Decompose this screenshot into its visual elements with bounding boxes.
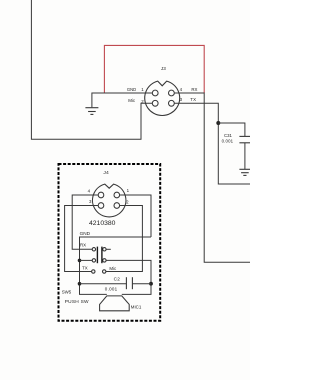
microphone MIC1 bbox=[100, 296, 130, 311]
wire J4 pin1 to GND bus bbox=[120, 195, 151, 237]
svg-text:TX: TX bbox=[190, 97, 196, 102]
switch SW5 actuator bars bbox=[97, 247, 102, 264]
junction GND/C2 bbox=[78, 282, 82, 286]
svg-text:SW5: SW5 bbox=[62, 289, 72, 294]
svg-text:TX: TX bbox=[82, 266, 88, 271]
svg-text:C2: C2 bbox=[114, 277, 121, 282]
connector J3 bbox=[145, 81, 180, 115]
svg-text:PUSH SW: PUSH SW bbox=[65, 299, 89, 305]
ground symbol at C31 bbox=[239, 169, 250, 175]
switch SW5 row3 TX/Mic contacts bbox=[92, 270, 106, 273]
svg-text:RX: RX bbox=[191, 87, 197, 92]
capacitor C31 bbox=[218, 123, 250, 169]
junction GND/row2 bbox=[78, 259, 82, 263]
svg-text:GND: GND bbox=[127, 87, 136, 92]
svg-text:0.001: 0.001 bbox=[105, 287, 118, 292]
svg-text:0.001: 0.001 bbox=[222, 139, 234, 144]
svg-text:Mic: Mic bbox=[109, 266, 117, 271]
junction node TX/C31 bbox=[216, 121, 220, 125]
wire J4 pin3 to SW5 TX row bbox=[65, 206, 99, 272]
wire TX net bbox=[174, 103, 250, 184]
svg-text:RX: RX bbox=[80, 242, 86, 247]
capacitor C2 bbox=[80, 277, 152, 289]
wire Mic net off-page left border bbox=[31, 0, 152, 139]
wire J4 pin4 to SW5 RX row bbox=[72, 195, 98, 249]
svg-text:MIC1: MIC1 bbox=[131, 304, 142, 309]
switch SW5 row1 RX contacts bbox=[92, 248, 111, 251]
wire RX net bbox=[174, 93, 250, 262]
svg-text:C31: C31 bbox=[224, 133, 232, 138]
svg-text:J4: J4 bbox=[103, 170, 109, 176]
red jumper wire from GND net to RX net bbox=[104, 45, 204, 93]
wire GND J3 pin1 bbox=[92, 93, 152, 107]
junction C2/MIC1 bbox=[149, 282, 153, 286]
svg-text:GND: GND bbox=[80, 231, 91, 236]
switch SW5 row2 contacts bbox=[80, 259, 152, 295]
svg-text:J3: J3 bbox=[161, 66, 166, 71]
wire J4 pin2 to Mic contact bbox=[106, 206, 142, 272]
ground symbol at J3 GND bbox=[85, 108, 98, 115]
svg-text:4210380: 4210380 bbox=[89, 220, 116, 227]
svg-text:Mic: Mic bbox=[128, 98, 136, 103]
connector J4 bbox=[93, 184, 126, 217]
dashed enclosure J4 handset assembly bbox=[59, 164, 161, 321]
node GND bus wire bbox=[80, 237, 152, 294]
